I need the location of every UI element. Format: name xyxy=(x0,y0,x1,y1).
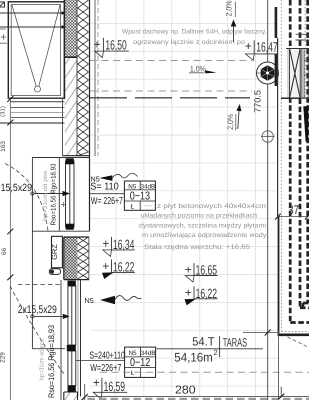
leader diagonal dashed xyxy=(288,337,310,348)
long dash overhead line y98 xyxy=(90,97,309,99)
svg-text:N5: N5 xyxy=(129,350,138,357)
heavy dashed overhead line x300 upper xyxy=(299,0,302,48)
svg-text:16,59: 16,59 xyxy=(104,379,125,394)
svg-text:2,0%: 2,0% xyxy=(226,114,235,130)
small dim line to corner xyxy=(243,330,278,336)
radiator GRZ box xyxy=(49,236,62,274)
main vertical reference line xyxy=(267,0,269,400)
upper wall masonry cross-hatch xyxy=(65,0,77,57)
terrace edge line right of wall xyxy=(94,0,96,156)
skylight tray inner rect xyxy=(11,5,60,96)
slope arrow 2,0% mid xyxy=(226,104,241,130)
level marker +16,59 xyxy=(93,375,127,398)
dotted inner corner xyxy=(282,218,310,332)
dimension ticks on left line xyxy=(7,96,13,280)
acoustic table lower xyxy=(125,347,156,377)
slope arrow 1,0% xyxy=(189,64,217,73)
black wedge column xyxy=(303,106,308,141)
step lines below tray xyxy=(0,98,64,123)
svg-text:Ł: Ł xyxy=(130,203,134,210)
lower niche outline xyxy=(32,280,65,400)
N5 marker lower with squiggle xyxy=(85,296,142,305)
long dashed line y61 xyxy=(90,60,252,62)
lower window frame xyxy=(68,286,76,386)
gray note text top: roof drain description xyxy=(122,29,267,47)
lower wall masonry cross-hatch xyxy=(64,237,78,280)
left dimension line xyxy=(9,98,11,400)
svg-text:54,16m: 54,16m xyxy=(174,351,213,365)
svg-text:770.5: 770.5 xyxy=(253,90,263,113)
svg-text:54.T: 54.T xyxy=(192,335,215,349)
svg-text:dystansowych, szczelina między: dystansowych, szczelina między płytami xyxy=(139,222,267,229)
skylight tray outer rect xyxy=(8,2,64,98)
svg-text:+: + xyxy=(94,38,101,52)
fine dotted line x281 xyxy=(280,0,282,218)
heavy dashed corner mid xyxy=(290,321,309,324)
level marker +16,65 xyxy=(185,262,218,282)
lintel short lines top right xyxy=(296,34,310,40)
tray arrow line 1 xyxy=(0,11,67,15)
svg-text:GRZ: GRZ xyxy=(50,244,59,260)
vertical dim line bottom right xyxy=(277,331,279,400)
bottom wall stub xyxy=(64,392,78,400)
upper wall masonry boundary xyxy=(64,56,77,58)
svg-text:+: + xyxy=(185,262,192,276)
svg-text:W= 226+7: W= 226+7 xyxy=(91,196,123,207)
svg-text:N5: N5 xyxy=(85,296,94,305)
level marker +16,34 xyxy=(102,236,135,256)
heavy dashed corner inner with notch xyxy=(300,303,309,308)
insulation zigzag upper wall xyxy=(78,0,89,156)
wall inner face line xyxy=(63,0,65,99)
svg-text:−−: −− xyxy=(144,203,152,210)
skylight drain circle xyxy=(35,86,41,92)
lower-right solid wall corner xyxy=(278,216,309,335)
svg-text:ogrzewany łącznie z odcinkiem: ogrzewany łącznie z odcinkiem po xyxy=(133,39,245,46)
terrace paving grid xyxy=(90,0,278,397)
svg-text:16,50: 16,50 xyxy=(105,38,126,53)
upper window frame xyxy=(66,161,75,227)
svg-text:2,0%: 2,0% xyxy=(225,1,234,17)
svg-text:−−−: −−− xyxy=(142,370,154,377)
heavy dashed overhead line x307 xyxy=(306,0,309,303)
window in plan (X symbol) right edge xyxy=(281,49,309,99)
svg-text:(31): (31) xyxy=(0,106,7,117)
svg-text:66: 66 xyxy=(1,248,8,256)
lower wall edges xyxy=(64,237,89,280)
bottom heavy dashed line xyxy=(88,398,310,400)
svg-text:15,5x29: 15,5x29 xyxy=(1,182,33,194)
tray arrow line 2 xyxy=(0,25,67,29)
upper window niche outline xyxy=(32,158,89,349)
dim 37 xyxy=(275,203,310,220)
svg-text:N5: N5 xyxy=(128,183,137,190)
upper window frame end blocks xyxy=(66,158,74,164)
upper wall bottom edge xyxy=(63,155,90,157)
skylight V slope lines xyxy=(12,5,60,86)
thick wall edge top right xyxy=(275,7,278,86)
heavy dashed overhead line x286 xyxy=(289,0,292,321)
svg-text:+: + xyxy=(102,236,109,250)
slope arrow 2,0% top xyxy=(225,1,237,43)
svg-text:+: + xyxy=(93,375,100,389)
svg-text:hp=31cm od pos.: hp=31cm od pos. xyxy=(42,169,49,221)
svg-text:+: + xyxy=(245,39,252,53)
gray dashed line y91 xyxy=(90,90,252,92)
separator line under S lower xyxy=(75,360,124,362)
wall diagonal-hatch section xyxy=(65,58,77,156)
upper window opening arrow xyxy=(31,191,70,196)
insulation zigzag lower wall xyxy=(78,237,89,280)
svg-text:37: 37 xyxy=(288,203,299,217)
corner icon top-left xyxy=(0,2,5,7)
svg-text:229: 229 xyxy=(0,352,7,363)
separator line under S xyxy=(90,193,125,195)
thin wall edge continuation xyxy=(277,38,279,216)
sill face line lower xyxy=(80,280,82,397)
acoustic table upper xyxy=(124,181,155,210)
svg-text:2: 2 xyxy=(214,348,218,357)
terrace dashed edge line xyxy=(97,0,99,156)
svg-text:hp=31cm od pos.: hp=31cm od pos. xyxy=(39,338,46,380)
roof drain symbol xyxy=(257,62,279,84)
lower window opening arrow xyxy=(31,314,70,319)
wall outer face line xyxy=(89,0,91,231)
fine dotted line x306 xyxy=(304,0,306,99)
level marker +16,47 xyxy=(245,39,278,60)
door swing arc lower xyxy=(10,286,64,374)
bottom terrace edge solid line xyxy=(88,396,310,398)
svg-text:m umożliwiająca odprowadzenie: m umożliwiająca odprowadzenie wody. xyxy=(142,232,268,239)
door swing arc upper xyxy=(5,164,48,232)
svg-text:34dB: 34dB xyxy=(140,183,155,190)
level marker +16,22 a xyxy=(102,259,135,279)
svg-text:Wpust dachowy np. Dallmer 64H,: Wpust dachowy np. Dallmer 64H, odpływ bo… xyxy=(122,29,267,36)
svg-text:Rso=16,56 Rgo=18,93: Rso=16,56 Rgo=18,93 xyxy=(51,163,58,225)
tick cross near frame xyxy=(61,202,66,207)
svg-text:TARAS: TARAS xyxy=(223,336,247,350)
svg-text:0−13: 0−13 xyxy=(130,191,150,203)
N5 marker upper with squiggle xyxy=(91,173,138,183)
svg-text:1,0%: 1,0% xyxy=(190,64,206,73)
wall inner face below tray xyxy=(62,99,64,156)
left edge tick annotation xyxy=(0,29,7,43)
lower niche dashed top line xyxy=(18,284,63,286)
svg-text:Ł: Ł xyxy=(131,370,135,377)
heavy dashed overhead line x300 lower xyxy=(299,99,302,308)
svg-text:Stała rzędna wierzchu: +16,65: Stała rzędna wierzchu: +16,65 xyxy=(144,244,250,251)
svg-text:Rso=16,56 Rgo=18,93: Rso=16,56 Rgo=18,93 xyxy=(47,325,56,398)
svg-text:z płyt betonowych 40x40x4cm: z płyt betonowych 40x40x4cm xyxy=(157,203,267,210)
svg-text:układanych poziomo na przekład: układanych poziomo na przekładkach xyxy=(141,213,258,220)
svg-text:163: 163 xyxy=(0,141,7,152)
level marker +16,50 xyxy=(94,38,129,58)
svg-text:+: + xyxy=(102,259,109,273)
dimension 280 xyxy=(82,384,285,400)
survey point circle xyxy=(261,131,275,142)
level marker +16,22 b xyxy=(185,286,218,306)
svg-text:S= 110: S= 110 xyxy=(90,182,119,193)
svg-text:0−12: 0−12 xyxy=(130,357,150,369)
room number 54.T TARAS xyxy=(157,335,264,365)
long gray dashed line y372 xyxy=(100,371,309,373)
svg-text:16,47: 16,47 xyxy=(256,39,277,54)
lower window frame end blocks xyxy=(68,281,76,287)
gray paragraph: terrace slabs description xyxy=(139,203,268,251)
svg-text:S=240+110: S=240+110 xyxy=(90,351,126,362)
svg-text:+: + xyxy=(185,286,192,300)
wall hatch boundary line xyxy=(76,0,78,156)
svg-text:280: 280 xyxy=(175,385,196,397)
svg-text:34dB: 34dB xyxy=(141,350,156,357)
